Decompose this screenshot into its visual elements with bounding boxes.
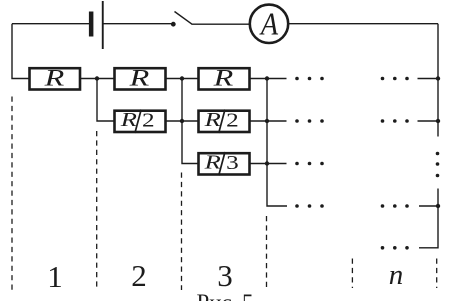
junction dot right bus row1 [436, 76, 440, 80]
resistor R/2 branch 3 [199, 111, 250, 132]
ellipsis dots row2 right group [381, 119, 409, 123]
switch lever [175, 12, 193, 25]
dashed separator column n left [351, 259, 353, 289]
junction dot bus2 row1 [180, 76, 184, 80]
dashed separator column 1 left [11, 97, 13, 291]
svg-text:2: 2 [142, 109, 155, 131]
wire battery to switch [103, 23, 172, 25]
wire branch3 R/3 to bus3 stub [250, 163, 287, 165]
junction dot bus2 row2 [180, 119, 184, 123]
resistor R/3 branch 3 [199, 153, 250, 174]
svg-text:1: 1 [47, 259, 63, 294]
svg-text:2: 2 [226, 109, 239, 131]
svg-text:R: R [129, 66, 150, 91]
battery negative plate (thick short bar) [89, 12, 94, 37]
svg-text:R: R [120, 109, 137, 131]
ellipsis dots row3 left group [295, 162, 324, 166]
wire switch to ammeter [192, 23, 250, 25]
bus between branch2 and branch3 with drop to R/3 [182, 79, 199, 164]
dashed separator column 1/2 [96, 131, 98, 290]
dashed separator column 2/3 [181, 173, 183, 291]
wire branch3 R to bus3 stub [250, 78, 287, 80]
wire branch2 left drop to R/2 [97, 79, 115, 122]
svg-text:n: n [389, 259, 404, 291]
ellipsis dots row5 right group [381, 246, 409, 250]
svg-text:R: R [203, 152, 220, 174]
wire right bus lower segment with corner to last row [419, 189, 438, 248]
svg-text:3: 3 [217, 258, 233, 293]
junction dot bus3 row3 [265, 161, 269, 165]
junction dot right bus row2 [436, 119, 440, 123]
wire ammeter to right corner [289, 23, 438, 25]
svg-text:5: 5 [242, 290, 254, 301]
wire branch1 resistor to node [80, 78, 115, 80]
svg-text:3: 3 [226, 151, 239, 173]
ellipsis dots row1 left group [295, 77, 324, 81]
resistor R/2 branch 2 [115, 111, 166, 132]
svg-text:A: A [259, 6, 279, 42]
svg-text:R: R [43, 66, 64, 91]
ellipsis dots row4 left group [295, 204, 324, 208]
ellipsis dots row2 left group [295, 119, 324, 123]
wire branch2 R to branch3 R [166, 78, 199, 80]
wire stub row4 to right bus [419, 205, 438, 207]
node dot branch2 left [95, 76, 99, 80]
svg-text:2: 2 [131, 258, 147, 293]
vertical ellipsis on right bus [436, 152, 440, 178]
dashed separator column n right [436, 259, 438, 289]
bus right of branch3 with corner to row4 [267, 79, 287, 207]
wire stub row1 to right bus [418, 78, 439, 80]
wire branch3 R/2 to bus3 stub [250, 120, 287, 122]
wire stub row2 to right bus [418, 120, 439, 122]
ammeter circle [250, 5, 288, 43]
wire right bus upper segment [437, 24, 439, 137]
ellipsis dots row4 right group [381, 204, 409, 208]
resistor R branch 3 [199, 68, 250, 89]
svg-text:Рис.: Рис. [197, 290, 238, 301]
switch contact dot [171, 22, 176, 27]
resistor R branch 1 [30, 68, 81, 89]
junction dot right bus row4 [436, 204, 440, 208]
battery positive plate (thin long bar) [102, 1, 104, 49]
wire branch2 R/2 to branch3 R/2 [166, 120, 199, 122]
junction dot bus3 row1 [265, 76, 269, 80]
ellipsis dots row1 right group [381, 77, 409, 81]
dashed separator column 3/4 [266, 216, 268, 290]
svg-text:R: R [203, 109, 220, 131]
resistor R branch 2 [115, 68, 166, 89]
svg-text:R: R [213, 66, 234, 91]
wire left rail down to branch 1 [12, 24, 30, 79]
wire top-left from battery to left corner [12, 23, 90, 25]
junction dot bus3 row2 [265, 119, 269, 123]
